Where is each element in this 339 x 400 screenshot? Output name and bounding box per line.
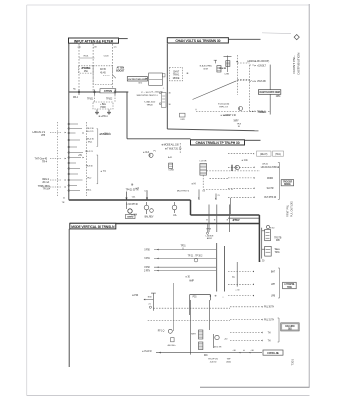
- svg-text:DAU-3RD: DAU-3RD: [285, 325, 295, 328]
- svg-text:LPH: LPH: [271, 284, 276, 286]
- svg-text:DISTRIBUTION: DISTRIBUTION: [296, 53, 300, 75]
- svg-text:⊕ 7.5: ⊕ 7.5: [101, 170, 107, 173]
- svg-text:30·M: 30·M: [203, 68, 208, 70]
- svg-text:⊕ SGNT 1 30: ⊕ SGNT 1 30: [223, 114, 236, 117]
- svg-text:⊥: ⊥: [222, 296, 224, 299]
- svg-text:(TR-1): (TR-1): [275, 154, 281, 156]
- svg-text:7-1 AB, 2010: 7-1 AB, 2010: [144, 101, 156, 104]
- svg-text:MODE: MODE: [284, 184, 291, 186]
- svg-text:(RE-07): (RE-07): [260, 154, 267, 156]
- svg-text:P → 30·21: P → 30·21: [141, 92, 151, 94]
- svg-text:2 RTN: 2 RTN: [144, 270, 150, 272]
- svg-text:A TRGPNL: A TRGPNL: [284, 283, 295, 286]
- svg-text:6/3 2 7/8: 6/3 2 7/8: [214, 346, 222, 348]
- svg-text:PUL 30 TH: PUL 30 TH: [264, 307, 275, 309]
- svg-text:⊕: ⊕: [215, 295, 217, 298]
- svg-text:M/TR: M/TR: [191, 334, 196, 336]
- svg-text:VOLT-AB: VOLT-AB: [257, 80, 266, 83]
- svg-text:TRIG: TRIG: [275, 252, 280, 254]
- svg-text:⊕ CLK: ⊕ CLK: [143, 151, 150, 154]
- svg-text:TP101: TP101: [87, 99, 94, 101]
- svg-text:MK-1: MK-1: [73, 97, 79, 99]
- svg-text:TR 104: TR 104: [43, 188, 51, 191]
- svg-text:⊕ (21) (2-30): ⊕ (21) (2-30): [218, 102, 230, 105]
- svg-text:FRNT PNL: FRNT PNL: [287, 204, 290, 217]
- svg-text:⊕ HI: ⊕ HI: [191, 183, 196, 186]
- svg-text:PUL 31 TH: PUL 31 TH: [264, 320, 275, 322]
- svg-text:⊕ 104: ⊕ 104: [131, 214, 138, 217]
- svg-text:C-RN: C-RN: [224, 73, 229, 75]
- svg-text:btg: btg: [232, 276, 235, 279]
- svg-text:TH: TH: [268, 332, 271, 334]
- svg-text:LN·TRGT SRG 2013: LN·TRGT SRG 2013: [128, 79, 147, 81]
- svg-text:TR-1 30: TR-1 30: [87, 128, 95, 130]
- svg-text:AMP: AMP: [189, 280, 194, 283]
- svg-text:PWR: PWR: [100, 107, 106, 109]
- svg-text:+5V: +5V: [78, 155, 82, 157]
- svg-text:INPUT ATTEN && FILTER: INPUT ATTEN && FILTER: [74, 39, 114, 43]
- svg-text:RT-1 Q: RT-1 Q: [158, 331, 165, 333]
- svg-text:⊕: ⊕: [206, 219, 208, 222]
- svg-text:TRN-B: TRN-B: [147, 104, 154, 106]
- svg-text:30C: 30C: [204, 355, 208, 357]
- svg-text:CNTRLLNE: CNTRLLNE: [267, 353, 279, 355]
- svg-text:JPWRNE: JPWRNE: [81, 68, 91, 70]
- svg-text:MK-4 30: MK-4 30: [86, 139, 94, 141]
- svg-text:TP31: TP31: [181, 246, 187, 248]
- svg-text:FRONT PNL.: FRONT PNL.: [292, 55, 296, 73]
- svg-text:6 P31: 6 P31: [144, 258, 150, 260]
- svg-text:BAL REV: BAL REV: [145, 215, 154, 218]
- svg-text:ATTEN: ATTEN: [104, 89, 112, 93]
- svg-text:MNFR: MNFR: [267, 178, 274, 180]
- svg-text:RT-OP CN: RT-OP CN: [208, 359, 218, 361]
- svg-text:CLKB: CLKB: [168, 170, 174, 172]
- svg-text:RGLTR: RGLTR: [219, 68, 226, 70]
- svg-text:SLCTR: SLCTR: [267, 188, 274, 190]
- svg-text:⊖ P33: ⊖ P33: [132, 294, 139, 297]
- svg-text:L=3.8 PH 30: L=3.8 PH 30: [126, 204, 138, 206]
- svg-text:L/R-00: L/R-00: [262, 163, 269, 165]
- svg-text:LCTOR: LCTOR: [200, 161, 207, 163]
- svg-text:⊕ C41: ⊕ C41: [241, 159, 248, 162]
- svg-text:(300): (300): [226, 362, 231, 364]
- svg-text:LTB: LTB: [41, 134, 45, 137]
- svg-text:4-30 30: 4-30 30: [210, 362, 217, 364]
- svg-text:BOOST: BOOST: [116, 70, 125, 73]
- svg-text:⊕ +15V-1: ⊕ +15V-1: [98, 115, 108, 118]
- svg-text:GN/RD: GN/RD: [127, 217, 134, 219]
- svg-text:L/R-00 AVG STRGE: L/R-00 AVG STRGE: [261, 166, 280, 169]
- svg-text:⊕: ⊕: [214, 219, 216, 222]
- svg-text:20 mA: 20 mA: [42, 181, 49, 184]
- svg-text:MODE VERTICAL 30 TRNSLN: MODE VERTICAL 30 TRNSLN: [71, 225, 115, 229]
- svg-text:TP 21→TP 30 2: TP 21→TP 30 2: [188, 255, 203, 257]
- svg-text:MULTTRGT 4: MULTTRGT 4: [177, 191, 190, 193]
- svg-text:DIS: DIS: [288, 329, 292, 331]
- svg-text:+ BAL: + BAL: [100, 103, 107, 106]
- svg-text:400·300+: 400·300+: [167, 345, 176, 347]
- svg-text:ASSY: ASSY: [207, 237, 213, 240]
- svg-text:TRP1 2 3!: TRP1 2 3!: [219, 106, 228, 108]
- svg-text:T301: T301: [291, 359, 295, 366]
- svg-text:TRN-1: TRN-1: [173, 75, 180, 77]
- svg-text:⊕: ⊕: [227, 219, 229, 222]
- svg-text:met: met: [233, 218, 237, 221]
- svg-text:⊕ PL-D W: ⊕ PL-D W: [142, 350, 153, 353]
- svg-text:+15VOLT: +15VOLT: [257, 66, 266, 68]
- svg-text:LPB: LPB: [271, 296, 276, 298]
- svg-text:⊕ T MULT 20, 30: ⊕ T MULT 20, 30: [165, 148, 182, 151]
- svg-text:(+RANGE·AB • FRONT): (+RANGE·AB • FRONT): [247, 60, 270, 63]
- svg-text:41-45: 41-45: [100, 73, 106, 75]
- svg-text:⊕ MODE ALL 100: ⊕ MODE ALL 100: [161, 144, 179, 147]
- svg-text:PUL OUT (30): PUL OUT (30): [290, 201, 293, 217]
- svg-text:TRIG: TRIG: [287, 287, 292, 289]
- svg-text:TP102: TP102: [106, 99, 113, 101]
- svg-text:FLT-B: FLT-B: [100, 69, 106, 71]
- svg-text:OUT-PHS 30: OUT-PHS 30: [264, 197, 277, 199]
- svg-text:MODE: MODE: [173, 78, 180, 80]
- svg-text:TR-8 30: TR-8 30: [86, 166, 94, 168]
- svg-text:CHAN TRNSLN TP TRLPH 30: CHAN TRNSLN TP TRLPH 30: [196, 141, 240, 145]
- svg-text:30B: 30B: [276, 240, 280, 242]
- svg-text:⊕ +15V·A: ⊕ +15V·A: [101, 133, 111, 136]
- svg-text:5 P30: 5 P30: [144, 249, 150, 251]
- svg-text:MK-2 21: MK-2 21: [85, 151, 93, 153]
- svg-text:⊕ A-30 (TRN): ⊕ A-30 (TRN): [200, 65, 212, 68]
- svg-text:⊥: ⊥: [163, 87, 165, 90]
- svg-text:CHNT: CHNT: [173, 71, 180, 73]
- svg-text:8 P32: 8 P32: [144, 267, 150, 269]
- svg-text:CHAN VOLTS && TRNSMN 30: CHAN VOLTS && TRNSMN 30: [175, 39, 220, 43]
- svg-text:OHM THCNTR OBM: OHM THCNTR OBM: [259, 92, 279, 94]
- svg-text:BHT: BHT: [271, 271, 276, 273]
- svg-text:TH: TH: [268, 340, 271, 342]
- svg-text:RL-2 21: RL-2 21: [87, 131, 95, 133]
- svg-text:TR-4: TR-4: [42, 161, 48, 164]
- svg-text:SNR TWTRD TRGT P-1: SNR TWTRD TRGT P-1: [136, 95, 158, 97]
- svg-text:45A: 45A: [84, 70, 88, 73]
- svg-text:TRNBLN: TRNBLN: [258, 112, 267, 114]
- svg-text:⊕ - 2100 • 30: ⊕ - 2100 • 30: [151, 91, 163, 94]
